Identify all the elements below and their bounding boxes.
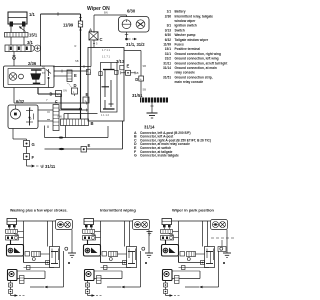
svg-text:1 1 7 1: 1 1 7 1 (102, 55, 110, 59)
svg-text:Connector, inside tailgate: Connector, inside tailgate (140, 154, 179, 158)
svg-text:31/14: 31/14 (163, 66, 171, 70)
wire A down to switch unit (93, 40, 95, 48)
svg-text:Ground connection strip,: Ground connection strip, (175, 75, 213, 79)
svg-text:G: G (32, 142, 35, 147)
svg-text:31/51: 31/51 (163, 75, 171, 79)
ground 31/14 (151, 103, 153, 114)
svg-text:window wiper: window wiper (174, 19, 197, 23)
wires into B strip (63, 114, 65, 120)
connector F (24, 154, 30, 160)
svg-text:F: F (55, 100, 58, 105)
svg-text:1/1: 1/1 (167, 10, 172, 14)
ground 31/11 arrow (26, 160, 28, 167)
svg-text:3/13: 3/13 (165, 28, 171, 32)
svg-text:31/11: 31/11 (163, 61, 171, 65)
wire relay bottom bold path (37, 88, 39, 95)
svg-text:Ignition switch: Ignition switch (175, 24, 197, 28)
svg-text:2/36: 2/36 (165, 14, 171, 18)
svg-text:SB: SB (143, 88, 147, 92)
svg-text:D: D (135, 77, 138, 82)
positive terminal 15/1 (5, 33, 29, 38)
wire motor down to G F (12, 129, 14, 140)
svg-text:Ground connection, at left tai: Ground connection, at left tail light (175, 61, 229, 65)
wire connector F to switch unit (59, 109, 88, 111)
svg-text:5: 5 (96, 42, 98, 46)
svg-text:6/32: 6/32 (165, 38, 171, 42)
pin box outer left edge (86, 70, 90, 75)
svg-text:Tailgate window wiper: Tailgate window wiper (175, 38, 209, 42)
svg-text:11/99: 11/99 (163, 43, 171, 47)
svg-text:Positive terminal: Positive terminal (175, 47, 201, 51)
connector G (24, 141, 30, 147)
svg-text:6/30: 6/30 (127, 9, 136, 14)
svg-text:1 7 1 1: 1 7 1 1 (102, 48, 110, 52)
svg-text:Wiper in park position: Wiper in park position (172, 208, 215, 213)
svg-text:SB: SB (135, 71, 139, 75)
svg-text:B: B (91, 121, 94, 126)
svg-text:Ground connection, left wing: Ground connection, left wing (175, 57, 219, 61)
svg-text:Y: Y (46, 98, 48, 102)
svg-text:6/30: 6/30 (165, 33, 171, 37)
svg-text:Ground connection, at main: Ground connection, at main (175, 66, 217, 70)
wire battery plus to top right (40, 14, 42, 66)
svg-text:3/1: 3/1 (27, 40, 33, 45)
svg-text:Fuses: Fuses (175, 43, 184, 47)
panel 3 extra dashes and box (211, 238, 234, 252)
svg-text:2/36: 2/36 (28, 61, 37, 66)
svg-text:Intermittent wiping: Intermittent wiping (100, 208, 136, 213)
svg-text:D: D (74, 83, 77, 88)
battery 1/1 (8, 12, 27, 33)
svg-text:31/1: 31/1 (165, 52, 171, 56)
wire A up and to pump (93, 15, 95, 33)
svg-text:D: D (50, 92, 53, 97)
svg-text:Washing plus a few wiper strok: Washing plus a few wiper strokes. (10, 209, 68, 213)
svg-text:6/32: 6/32 (16, 99, 25, 104)
svg-text:3/1: 3/1 (167, 24, 172, 28)
svg-text:Ground connection, right wing: Ground connection, right wing (175, 52, 221, 56)
wire below ignition switch to relay (13, 52, 15, 67)
svg-text:relay console: relay console (175, 71, 196, 75)
svg-text:G: G (134, 154, 137, 158)
connector B strip (61, 119, 89, 126)
svg-text:31/14: 31/14 (144, 125, 155, 130)
svg-text:F: F (32, 155, 35, 160)
ground connection 31/1 31/2 (126, 32, 128, 38)
wire battery to switch (10, 37, 12, 45)
svg-text:31/1, 31/2: 31/1, 31/2 (126, 42, 145, 47)
wires right verticals to ground strip (124, 50, 141, 52)
svg-text:R: R (75, 44, 77, 48)
svg-text:E: E (88, 143, 91, 148)
wire relay coil to ground path (13, 88, 15, 104)
svg-text:GN: GN (63, 89, 67, 93)
svg-text:Switch: Switch (175, 28, 185, 32)
svg-text:1: 1 (30, 107, 32, 111)
svg-text:main relay console: main relay console (175, 80, 204, 84)
svg-text:2: 2 (90, 71, 92, 75)
svg-text:31/51: 31/51 (132, 93, 143, 98)
svg-text:Intermittent relay, tailgate: Intermittent relay, tailgate (175, 14, 214, 18)
svg-text:C: C (100, 37, 103, 42)
svg-text:2: 2 (30, 117, 32, 121)
panel 2 extra ground (147, 232, 153, 236)
panel 3 park position mini schematic (161, 219, 232, 297)
wire 6/32 motor to connector F (lower) (38, 120, 54, 122)
wire 6/32 motor to connector F (upper) (38, 109, 54, 111)
svg-text:1: 1 (85, 99, 87, 103)
svg-text:31/11: 31/11 (45, 164, 56, 169)
bottom wire with connector E (45, 148, 81, 150)
panel 2 intermittent mini schematic (83, 219, 154, 297)
wire terminal ticks (47, 18, 95, 120)
switch unit outer box (88, 48, 124, 122)
svg-text:BN: BN (104, 11, 108, 15)
svg-text:15/1: 15/1 (165, 47, 171, 51)
svg-text:1/1: 1/1 (29, 12, 35, 17)
svg-text:31/2: 31/2 (165, 57, 171, 61)
wires below B strip (44, 126, 46, 138)
svg-text:E: E (127, 64, 130, 69)
svg-text:11/99: 11/99 (63, 23, 74, 28)
svg-text:SB: SB (75, 59, 79, 63)
svg-text:1: 1 (73, 90, 75, 94)
connector E strip vertical small (67, 70, 72, 82)
svg-text:E: E (74, 73, 77, 78)
svg-text:Washer pump: Washer pump (175, 33, 196, 37)
svg-text:SB: SB (143, 64, 147, 68)
svg-text:Battery: Battery (175, 10, 186, 14)
panel 1 washing mini schematic (6, 219, 77, 297)
svg-text:15/1: 15/1 (29, 33, 38, 38)
svg-text:1 1 1 2: 1 1 1 2 (101, 113, 109, 117)
wires from relay right to switch unit (54, 66, 91, 68)
